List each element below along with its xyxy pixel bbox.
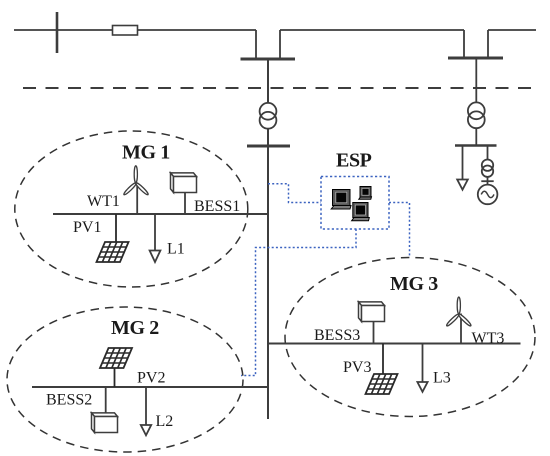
- wire: top feeder middle segment: [280, 29, 464, 31]
- sine wave of AC source: [481, 191, 494, 197]
- transformer T1 (two overlapping circles): [260, 103, 277, 129]
- busbar: right substation: [448, 57, 503, 60]
- svg-text:MG 3: MG 3: [390, 273, 438, 295]
- wire: transformer T2 to its busbar: [475, 128, 477, 145]
- svg-text:WT3: WT3: [472, 330, 505, 347]
- battery BESS2 (3D box): [92, 387, 118, 433]
- fuse F1 (rectangle on top feeder): [113, 26, 138, 36]
- computer icon 3 (medium workstation): [352, 203, 370, 221]
- computer icon 1 (large workstation): [331, 190, 351, 210]
- wire: transformer T3 to AC source: [487, 177, 489, 185]
- MG2 boundary ellipse: [7, 307, 243, 452]
- svg-text:PV2: PV2: [137, 370, 165, 387]
- svg-text:L2: L2: [156, 413, 174, 430]
- breaker tick on top feeder: [56, 12, 59, 53]
- bus: MG3 feeder: [268, 343, 521, 345]
- svg-text:BESS1: BESS1: [194, 198, 240, 215]
- wire: drop from top feeder to left substation busbar: [255, 30, 257, 59]
- wind turbine WT1: [123, 166, 149, 214]
- wire: branch to grid source: [487, 146, 489, 160]
- svg-text:MG 2: MG 2: [111, 317, 159, 339]
- earthing arrow (open triangle): [457, 180, 468, 190]
- wire: main distribution vertical bus upper: [267, 59, 269, 104]
- wire: top feeder left segment: [14, 29, 256, 31]
- svg-text:WT1: WT1: [87, 193, 120, 210]
- svg-text:L1: L1: [167, 241, 185, 258]
- computer icon 2 (small workstation): [359, 187, 372, 200]
- wire: main distribution vertical bus lower: [267, 128, 269, 419]
- boundary dashed separator line: [23, 87, 532, 89]
- wire: riser from left busbar to middle feeder: [279, 30, 281, 59]
- busbar: left substation: [241, 58, 296, 61]
- MG1 boundary ellipse: [15, 131, 248, 287]
- MG3 boundary ellipse: [285, 258, 535, 417]
- PV panel PV1 (slanted grid): [97, 214, 129, 262]
- svg-text:BESS2: BESS2: [46, 392, 92, 409]
- svg-text:MG 1: MG 1: [122, 142, 170, 164]
- comm link: ESP to MG2 (blue dotted): [241, 229, 356, 376]
- svg-text:ESP: ESP: [336, 150, 372, 172]
- battery BESS3 (3D box): [359, 302, 385, 344]
- comm link: ESP to MG3 (blue dotted): [389, 203, 410, 258]
- busbar: below transformer T1: [247, 145, 290, 148]
- comm link: main bus to ESP (blue dotted): [268, 184, 321, 203]
- load L3 arrow: [417, 344, 427, 392]
- wire: riser from right busbar to top feeder: [487, 30, 489, 58]
- transformer T2 (two overlapping circles): [468, 102, 485, 128]
- load L2 arrow: [141, 387, 151, 435]
- svg-text:BESS3: BESS3: [314, 327, 360, 344]
- battery BESS1 (3D box): [171, 173, 197, 214]
- AC grid source G (circle with sine): [478, 185, 498, 205]
- ESP boundary box (blue dashed): [321, 177, 389, 230]
- bus: MG1 feeder: [53, 213, 268, 215]
- tick above AC source: [481, 180, 493, 182]
- wire: drop from top feeder to right substation busbar: [463, 30, 465, 58]
- svg-text:PV1: PV1: [73, 219, 101, 236]
- transformer T3 (small two circles): [482, 160, 493, 177]
- wire: top feeder right segment: [488, 29, 536, 31]
- PV panel PV2 (slanted grid): [100, 348, 132, 387]
- wind turbine WT3: [446, 297, 472, 344]
- load L1 arrow: [150, 214, 161, 262]
- wire: branch to earthing arrow: [462, 146, 464, 180]
- svg-text:PV3: PV3: [343, 359, 371, 376]
- bus: MG2 feeder: [32, 386, 268, 388]
- wire: right substation vertical drop: [475, 58, 477, 103]
- svg-text:L3: L3: [433, 370, 451, 387]
- busbar: external grid busbar: [455, 144, 497, 147]
- PV panel PV3 (slanted grid): [366, 344, 398, 395]
